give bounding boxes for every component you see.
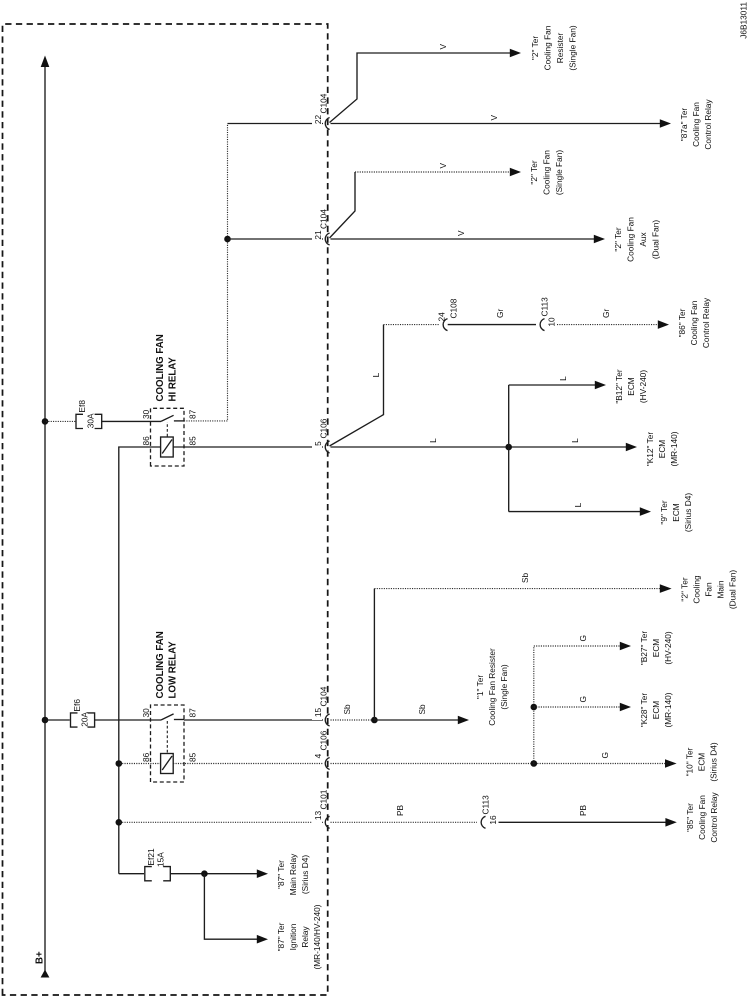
svg-text:ECM: ECM [697,753,707,772]
svg-text:24: 24 [437,312,447,322]
relay HI mechanical link [166,422,168,437]
node 1 Ter Cooling Fan Resister (Single Fan) [475,648,509,726]
svg-text:ECM: ECM [651,701,661,720]
svg-text:10: 10 [547,317,557,327]
svg-text:C104: C104 [319,686,329,706]
relay COOLING FAN LOW RELAY box [151,705,185,782]
node 87a Ter Cooling Fan Control Relay [679,99,713,150]
arrow to 87a Ter [660,119,671,128]
svg-text:"85" Ter: "85" Ter [685,803,695,832]
svg-text:G: G [578,696,588,702]
svg-text:Cooling Fan: Cooling Fan [691,102,701,147]
wire row22 to connector [228,123,324,125]
connector C106 pin 4 [312,730,330,769]
svg-text:"B12" Ter: "B12" Ter [614,369,624,404]
wire L branch to B12 [509,384,595,386]
junction G crossbar [531,760,538,767]
node 2 Ter Cooling Fan Aux (Dual Fan) [613,217,661,262]
wire row22 fork diagonal [330,53,511,123]
svg-text:Cooling Fan Resister: Cooling Fan Resister [487,648,497,726]
fuse block dashed border [3,24,328,995]
wire L crossbar [508,385,510,512]
svg-text:Control Relay: Control Relay [701,297,711,348]
svg-text:"87a" Ter: "87a" Ter [679,108,689,142]
svg-text:Cooling Fan: Cooling Fan [626,217,636,262]
svg-text:ECM: ECM [671,503,681,522]
svg-text:C106: C106 [319,418,329,438]
svg-text:16: 16 [488,815,498,825]
wire trunk 86 feed [119,447,161,874]
svg-text:ECM: ECM [651,639,661,658]
connector C108 pin 24 [437,298,459,330]
svg-text:V: V [438,163,448,169]
svg-text:"2" Ter: "2" Ter [613,227,623,251]
svg-text:Gr: Gr [601,309,611,318]
wire C108 to C113 [448,324,536,326]
svg-text:"2" Ter: "2" Ter [530,36,540,60]
svg-text:(Dual Fan): (Dual Fan) [728,570,738,609]
svg-text:(Sirius D4): (Sirius D4) [683,493,693,532]
svg-text:V: V [456,230,466,236]
svg-text:(MR-140): (MR-140) [669,431,679,466]
arrow to 86 Ter [658,320,669,329]
svg-text:(Dual Fan): (Dual Fan) [651,220,661,259]
junction L crossbar [505,444,512,451]
svg-text:13: 13 [313,811,323,821]
svg-text:Main: Main [716,580,726,598]
svg-text:Ef21: Ef21 [146,848,156,865]
svg-text:(Sirius D4): (Sirius D4) [300,855,310,894]
fuse Ef8 30A [76,400,102,429]
svg-text:20A: 20A [80,712,90,727]
wire Sb branch crossbar to Main [373,589,375,720]
svg-text:"87" Ter: "87" Ter [276,922,286,951]
node K12 Ter ECM (MR-140) [645,431,679,466]
arrow to 2 Ter Aux [594,235,605,244]
arrow to 2 Ter Main [660,584,672,593]
svg-text:V: V [438,44,448,50]
svg-text:C104: C104 [319,93,329,113]
arrow to 9 Ter [640,507,651,516]
node B12 Ter ECM (HV-240) [614,369,648,404]
svg-text:C104: C104 [319,209,329,229]
arrow to 10 Ter [665,759,677,768]
node 86 Ter Cooling Fan Control Relay [677,297,711,348]
svg-text:Gr: Gr [495,309,505,318]
svg-text:(Sirius D4): (Sirius D4) [709,742,719,781]
svg-text:30A: 30A [86,413,96,428]
arrow to K28 Ter [620,703,631,712]
svg-text:L: L [570,438,580,443]
svg-text:85: 85 [188,436,198,446]
svg-text:C101: C101 [319,789,329,809]
svg-text:(Single Fan): (Single Fan) [499,664,509,709]
wire C113 dotted to arrow [557,324,658,326]
connector C104 pin 21 [312,209,330,245]
arrow to 87 Ter Ignition Relay [257,935,268,944]
svg-text:Aux: Aux [638,232,648,247]
B+ feed triangle left [41,970,50,978]
wire trunk corner to fuse Ef21 [119,873,144,875]
svg-text:V: V [489,115,499,121]
relay LOW coil feed wire 86 [120,763,161,765]
wire L branch to 9 Ter [509,511,640,513]
svg-text:LOW RELAY: LOW RELAY [168,641,179,699]
svg-text:L: L [558,376,568,381]
node 87 Ter Main Relay (Sirius D4) [276,853,310,895]
svg-text:G: G [600,752,610,758]
svg-text:ECM: ECM [657,440,667,459]
junction bus to fuse Ef8 [42,418,49,425]
svg-text:"9" Ter: "9" Ter [659,500,669,524]
wire row21 fork diagonal [330,172,356,238]
wire G branch to K28 [534,706,620,708]
wire fuse Ef21 to junction [170,873,257,875]
node 10 Ter ECM (Sirius D4) [685,742,719,781]
svg-text:22: 22 [313,115,323,125]
svg-text:C113: C113 [540,297,550,317]
wire row21 fork dotted drop [355,171,510,173]
svg-text:L: L [371,372,381,377]
arrow to 2 Ter Resister [510,49,521,58]
wire trunk to C101 connector [120,821,323,823]
wire Sb to 1 Ter arrow [374,719,458,721]
node 9 Ter ECM (Sirius D4) [659,493,693,532]
svg-text:4: 4 [313,753,323,758]
svg-text:Control Relay: Control Relay [703,99,713,150]
wire row21 to connector [228,238,324,240]
relay HI coil 85 wire to C106 [173,446,323,448]
svg-text:"10" Ter: "10" Ter [685,747,695,776]
node K28 Ter ECM (MR-140) [639,692,673,727]
arrow to B27 Ter [620,642,631,651]
wire dotted to C108 [384,324,439,326]
arrow to 2 Ter Single Fan [510,168,521,177]
junction G to K28 [531,704,538,711]
connector C101 pin 13 [312,789,330,828]
relay LOW 87 wire to C104 [184,719,323,721]
node 87 Ter Ignition Relay (MR-140/HV-240) [276,904,322,969]
svg-text:Cooling Fan: Cooling Fan [542,150,552,195]
relay LOW mechanical link [166,721,168,753]
connector C113 pin 10 [540,297,557,331]
svg-text:COOLING FAN: COOLING FAN [155,334,166,401]
junction trunk to C101 row [116,819,123,826]
wire G branch to B27 [534,645,620,647]
svg-text:Cooling Fan: Cooling Fan [697,795,707,840]
junction 87 crossbar to row21 [224,236,231,243]
svg-text:Ef8: Ef8 [77,400,87,413]
wire row22 below connector [331,123,661,125]
junction Ef21 branch [201,870,208,877]
svg-text:5: 5 [313,441,323,446]
junction bus to fuse Ef6 [42,717,49,724]
wire Sb dotted drop to Main [374,588,660,590]
fuse Ef6 20A [71,699,95,727]
svg-text:86: 86 [141,752,151,762]
node 85 Ter Cooling Fan Control Relay [685,792,719,843]
wire C106-5 fork diagonal to Gr branch [330,325,384,446]
svg-text:(HV-240): (HV-240) [663,631,673,664]
svg-text:(HV-240): (HV-240) [638,370,648,403]
svg-text:Cooling Fan: Cooling Fan [543,25,553,70]
svg-text:"2" Ter: "2" Ter [529,160,539,184]
svg-text:87: 87 [188,409,198,419]
fuse Ef21 15A [145,848,171,881]
svg-text:COOLING FAN: COOLING FAN [155,631,166,698]
arrow to K12 Ter [626,443,637,452]
svg-text:(Single Fan): (Single Fan) [568,25,578,70]
connector C104 pin 15 [312,686,330,726]
connector C113 pin 16 [481,795,499,828]
svg-text:Cooling Fan: Cooling Fan [689,300,699,345]
wire L row below C106 [331,446,627,448]
wire row21 below connector [331,238,595,240]
svg-text:Relay: Relay [300,926,310,948]
svg-text:"86" Ter: "86" Ter [677,308,687,337]
wire Sb dotted below C104-15 [331,719,375,721]
svg-text:85: 85 [188,752,198,762]
svg-text:Fan: Fan [704,582,714,597]
wire G dotted below C106-4 [331,763,666,765]
svg-text:Main Relay: Main Relay [288,853,298,895]
svg-text:Sb: Sb [342,704,352,715]
node B27 Ter ECM (HV-240) [639,631,673,666]
svg-text:"87" Ter: "87" Ter [276,860,286,889]
svg-text:30: 30 [141,708,151,718]
arrow to 87 Ter Main Relay [257,869,268,878]
svg-text:L: L [428,438,438,443]
svg-text:"2" Ter: "2" Ter [680,577,690,601]
relay HI coil [161,437,174,457]
svg-text:"K12" Ter: "K12" Ter [645,432,655,467]
svg-text:(Single Fan): (Single Fan) [554,150,564,195]
svg-text:ECM: ECM [626,377,636,396]
wire B+ bus rail [44,66,46,971]
svg-text:30: 30 [141,409,151,419]
wire fuse Ef6 to relay pin 30 [95,719,161,721]
svg-text:Cooling: Cooling [692,575,702,604]
node 2 Ter Cooling Fan Main (Dual Fan) [680,570,738,609]
svg-text:"B27" Ter: "B27" Ter [639,631,649,666]
svg-text:G: G [578,635,588,641]
wire G crossbar [533,646,535,764]
svg-text:Resister: Resister [555,33,565,64]
relay LOW pin 87 stub [174,719,184,721]
junction trunk to LOW relay 86 [116,760,123,767]
relay LOW coil [161,754,174,774]
relay LOW 85 wire to C106 [173,763,323,765]
relay HI title [155,334,179,401]
arrow to 85 Ter [665,818,676,827]
node 2 Ter Cooling Fan (Single Fan) [529,150,564,195]
wire bus to fuse Ef8 [46,420,76,422]
connector C106 pin 5 [312,418,330,453]
arrow to B12 Ter [595,381,606,390]
svg-text:Sb: Sb [417,704,427,715]
svg-text:"K28" Ter: "K28" Ter [639,693,649,728]
relay COOLING FAN HI RELAY box [151,408,185,466]
relay LOW switch blade pin30-87 [161,714,174,720]
relay HI 87 output wire [184,124,228,421]
svg-text:87: 87 [188,708,198,718]
connector C104 pin 22 [312,93,330,129]
wire PB dotted C101 to C113 [331,821,478,823]
svg-text:C108: C108 [449,298,459,318]
svg-text:PB: PB [395,804,405,816]
svg-text:HI RELAY: HI RELAY [168,357,179,402]
node 2 Ter Cooling Fan Resister (Single Fan) [530,25,578,70]
svg-text:PB: PB [578,804,588,816]
svg-text:C106: C106 [319,730,329,750]
svg-text:Control Relay: Control Relay [709,792,719,843]
svg-text:C113: C113 [481,795,491,815]
relay LOW title [155,631,179,698]
svg-text:J6B13011: J6B13011 [739,2,749,39]
svg-text:Ignition: Ignition [288,923,298,950]
arrow to 1 Ter [458,716,469,725]
B+ arrow right [41,56,50,68]
wire Ef21 crossbar to ignition relay [204,874,257,940]
svg-text:Sb: Sb [520,572,530,583]
relay HI pin 87 stub [174,420,184,422]
svg-text:(MR-140/HV-240): (MR-140/HV-240) [312,904,322,969]
svg-text:86: 86 [141,436,151,446]
svg-text:B+: B+ [35,951,46,964]
svg-text:15A: 15A [156,852,166,867]
wire fuse Ef8 to relay pin 30 [102,420,161,422]
svg-text:L: L [573,502,583,507]
wire PB solid to 85 Ter arrow [499,821,666,823]
svg-text:21: 21 [313,230,323,240]
svg-text:(MR-140): (MR-140) [663,692,673,727]
svg-text:15: 15 [313,708,323,718]
svg-text:"1" Ter: "1" Ter [475,675,485,699]
wire bus to fuse Ef6 [46,719,70,721]
junction Sb branch [371,717,378,724]
relay HI switch blade pin30-87 [161,415,174,421]
svg-text:Ef6: Ef6 [72,699,82,712]
